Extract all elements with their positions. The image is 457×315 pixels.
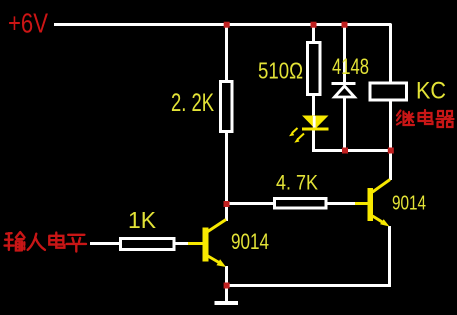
- svg-text:510Ω: 510Ω: [258, 58, 303, 84]
- svg-text:9014: 9014: [231, 229, 269, 254]
- svg-text:4148: 4148: [332, 54, 369, 79]
- svg-text:1K: 1K: [128, 207, 157, 233]
- svg-text:9014: 9014: [392, 192, 426, 214]
- svg-text:4. 7K: 4. 7K: [276, 172, 318, 195]
- svg-text:KC: KC: [416, 78, 446, 105]
- svg-text:+6V: +6V: [8, 8, 49, 39]
- svg-text:2. 2K: 2. 2K: [171, 89, 214, 117]
